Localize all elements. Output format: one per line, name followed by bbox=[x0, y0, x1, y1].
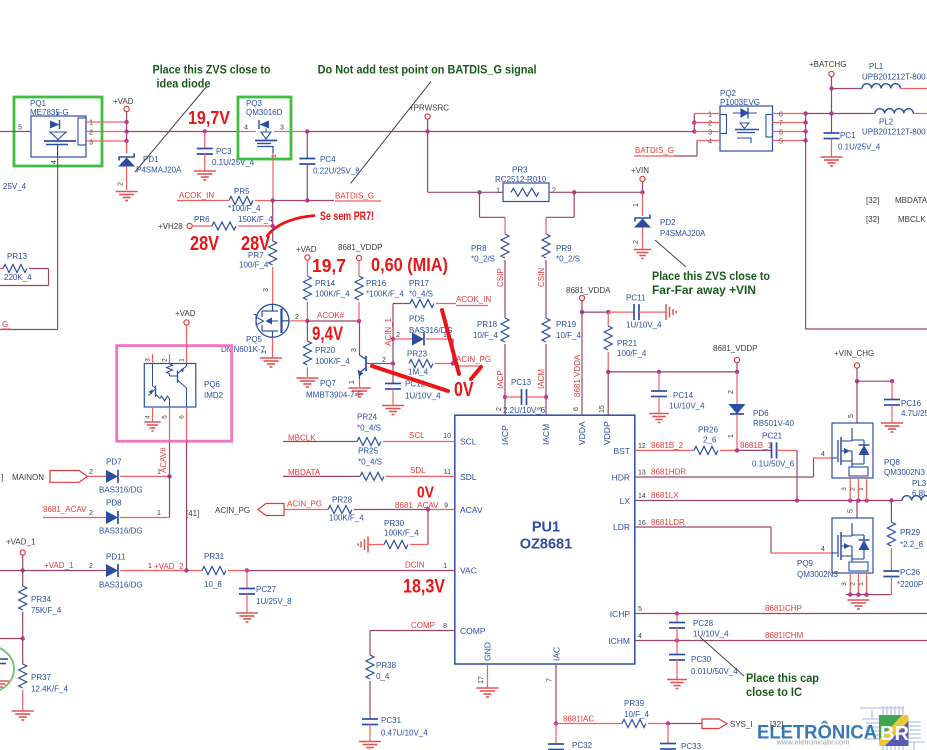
capacitor PC13 bbox=[503, 395, 507, 399]
PQ6 pin stubs bbox=[152, 354, 154, 364]
svg-text:SCL: SCL bbox=[409, 431, 425, 440]
svg-text:5: 5 bbox=[779, 139, 783, 146]
node SYS_I bbox=[666, 721, 670, 725]
svg-text:PR16: PR16 bbox=[366, 279, 387, 288]
svg-text:3: 3 bbox=[841, 582, 848, 586]
svg-text:HDR: HDR bbox=[612, 473, 630, 483]
wire PQ2 right bus down bbox=[805, 114, 807, 141]
svg-text:*0_4/S: *0_4/S bbox=[358, 458, 382, 467]
svg-text:5: 5 bbox=[848, 414, 855, 418]
wire +VIN_CHG to PQ8 drain bbox=[856, 381, 858, 423]
svg-text:1: 1 bbox=[708, 112, 712, 119]
svg-text:2: 2 bbox=[162, 358, 169, 362]
svg-text:www.eletronicabr.com: www.eletronicabr.com bbox=[776, 738, 850, 747]
svg-text:Far-Far away +VIN: Far-Far away +VIN bbox=[652, 283, 756, 297]
svg-text:ICHP: ICHP bbox=[610, 609, 631, 619]
svg-text:DCIN: DCIN bbox=[405, 561, 425, 570]
svg-text:0V: 0V bbox=[417, 485, 434, 502]
svg-text:PD5: PD5 bbox=[409, 315, 425, 324]
ground under PD1 bbox=[116, 191, 138, 193]
resistor PR30 to rake ground bbox=[427, 510, 429, 545]
node VDDP rail bbox=[606, 370, 610, 374]
ground under PC30 bbox=[667, 679, 687, 681]
svg-text:4: 4 bbox=[708, 139, 712, 146]
svg-text:3: 3 bbox=[537, 407, 544, 411]
svg-text:220K_4: 220K_4 bbox=[4, 273, 32, 282]
wire ACAV row bbox=[284, 509, 328, 511]
svg-text:0,60 (MIA): 0,60 (MIA) bbox=[371, 255, 448, 275]
wire main top rail bbox=[127, 131, 205, 133]
svg-text:6: 6 bbox=[179, 415, 186, 419]
svg-text:+BATCHG: +BATCHG bbox=[809, 60, 846, 69]
wire ACOK node down to PQ7 collector bbox=[359, 321, 361, 353]
leader line to BATDIS_G bbox=[351, 81, 431, 183]
green highlight box around PQ1 bbox=[14, 97, 102, 166]
watermark circuit traces bbox=[866, 722, 879, 724]
svg-text:PQ2: PQ2 bbox=[720, 89, 737, 98]
svg-text:1: 1 bbox=[443, 563, 447, 570]
PQ9 bottom pins to ground bus bbox=[849, 573, 851, 595]
svg-text:100/F_4: 100/F_4 bbox=[617, 349, 647, 358]
svg-text:PC4: PC4 bbox=[320, 155, 336, 164]
svg-text:0V: 0V bbox=[454, 379, 474, 401]
svg-text:PR39: PR39 bbox=[624, 699, 645, 708]
svg-text:*0_2/S: *0_2/S bbox=[556, 255, 580, 264]
wire +PRWSRC down to PR3 row bbox=[427, 132, 429, 193]
svg-text:8681_ACAV: 8681_ACAV bbox=[395, 501, 439, 510]
svg-text:1: 1 bbox=[496, 188, 500, 195]
wire ICHP row bbox=[635, 613, 927, 615]
resistor PR6 bbox=[192, 225, 212, 227]
svg-text:2: 2 bbox=[708, 121, 712, 128]
capacitor PC11 bbox=[633, 304, 635, 320]
svg-text:0_4: 0_4 bbox=[376, 672, 390, 681]
svg-text:8: 8 bbox=[779, 112, 783, 119]
wire main rail to PQ2 bbox=[428, 131, 695, 133]
capacitor PC26 bbox=[883, 570, 899, 572]
ground under PD2 bbox=[634, 249, 652, 251]
ground rake left of PR30 bbox=[367, 537, 369, 553]
svg-text:8681LDR: 8681LDR bbox=[651, 518, 685, 527]
svg-text:PR3: PR3 bbox=[512, 166, 528, 175]
svg-text:SDL: SDL bbox=[410, 466, 426, 475]
wire PQ6 pin6 to +VAD_2 bbox=[186, 441, 188, 570]
ground under PQ7 bbox=[349, 387, 371, 389]
svg-text:2: 2 bbox=[552, 188, 556, 195]
svg-text:PR23: PR23 bbox=[407, 350, 428, 359]
resistor PR7 bbox=[269, 241, 277, 265]
svg-text:PR26: PR26 bbox=[698, 426, 719, 435]
svg-text:5: 5 bbox=[638, 606, 642, 613]
svg-text:ACIN_PG: ACIN_PG bbox=[456, 355, 491, 364]
svg-text:*2200P: *2200P bbox=[897, 580, 923, 589]
PQ5 source to ground bbox=[272, 337, 274, 357]
svg-text:P4SMAJ20A: P4SMAJ20A bbox=[660, 229, 706, 238]
svg-text:PC11: PC11 bbox=[626, 294, 646, 303]
svg-text:PL1: PL1 bbox=[869, 62, 884, 71]
resistor PR38 bbox=[369, 631, 371, 656]
svg-text:PQ9: PQ9 bbox=[797, 559, 814, 568]
svg-text:1: 1 bbox=[261, 350, 268, 354]
svg-text:MMBT3904-7-F: MMBT3904-7-F bbox=[306, 391, 362, 400]
svg-text:MBDATA: MBDATA bbox=[288, 468, 321, 477]
svg-text:ACIN_PG: ACIN_PG bbox=[215, 506, 250, 515]
svg-text:7: 7 bbox=[547, 678, 554, 682]
wire CSIN vertical bbox=[545, 260, 547, 318]
svg-text:PC26: PC26 bbox=[900, 568, 921, 577]
svg-text:MBDATA: MBDATA bbox=[895, 196, 927, 205]
svg-text:*0_4/S: *0_4/S bbox=[357, 424, 381, 433]
svg-text:ACIN_1: ACIN_1 bbox=[384, 317, 393, 346]
svg-text:ACOK#: ACOK# bbox=[317, 311, 345, 320]
svg-text:PR37: PR37 bbox=[31, 673, 52, 682]
svg-text:18,3V: 18,3V bbox=[403, 577, 445, 598]
wire PQ1 pin1 to +VAD bus bbox=[86, 121, 127, 123]
wire VAC row from PC27 to PU1 bbox=[247, 570, 455, 572]
svg-text:1: 1 bbox=[157, 510, 161, 517]
svg-text:close to IC: close to IC bbox=[746, 685, 802, 699]
svg-text:2: 2 bbox=[496, 407, 503, 411]
svg-text:8681ICHP: 8681ICHP bbox=[765, 604, 802, 613]
svg-text:9: 9 bbox=[444, 503, 448, 510]
svg-text:]: ] bbox=[1, 473, 3, 482]
wire ICHM row bbox=[635, 640, 927, 642]
wire ACOK_IN row bbox=[177, 200, 229, 202]
svg-text:[32]: [32] bbox=[866, 196, 879, 205]
svg-text:3: 3 bbox=[841, 487, 848, 491]
svg-text:+VAD_2: +VAD_2 bbox=[154, 562, 184, 571]
node +VAD bus with junctions bbox=[126, 122, 128, 154]
svg-text:CSIP: CSIP bbox=[496, 268, 505, 287]
svg-text:8681_VDDP: 8681_VDDP bbox=[713, 344, 757, 353]
svg-text:BAS316/DG: BAS316/DG bbox=[99, 486, 143, 495]
svg-text:6: 6 bbox=[779, 130, 783, 137]
PQ8 bottom pins to LX bbox=[849, 478, 851, 501]
svg-text:1: 1 bbox=[271, 154, 278, 158]
svg-text:VAC: VAC bbox=[460, 566, 477, 576]
resistor PR20 bbox=[306, 321, 308, 341]
svg-text:QM3002N3: QM3002N3 bbox=[797, 570, 838, 579]
node ACIN_PG bbox=[451, 361, 455, 365]
svg-text:17: 17 bbox=[478, 676, 485, 684]
svg-text:100K/F_4: 100K/F_4 bbox=[315, 290, 350, 299]
node PR3 pin2 bbox=[549, 191, 643, 193]
svg-text:1U/10V_4: 1U/10V_4 bbox=[669, 402, 705, 411]
diode PD7 bbox=[88, 475, 107, 477]
svg-text:8681IAC: 8681IAC bbox=[563, 715, 594, 724]
green circled component (left edge) bbox=[0, 645, 14, 693]
svg-text:3: 3 bbox=[280, 125, 284, 132]
svg-text:100K/F_4: 100K/F_4 bbox=[329, 514, 364, 523]
ground under PC1 bbox=[821, 156, 843, 158]
PQ7 emitter to ground bbox=[359, 379, 361, 387]
svg-text:2: 2 bbox=[89, 510, 93, 517]
ground inside PQ6 box bbox=[144, 421, 161, 423]
svg-text:OZ8681: OZ8681 bbox=[520, 537, 572, 553]
wire PQ2 left bus bbox=[693, 114, 695, 132]
wire VDDA rail to PC11 bbox=[582, 311, 608, 313]
svg-text:2: 2 bbox=[382, 357, 386, 364]
svg-text:4.7U/25: 4.7U/25 bbox=[901, 409, 927, 418]
wire PQ1 pin2 to +VAD bus bbox=[86, 131, 127, 133]
leader line to PD1 bbox=[135, 86, 207, 172]
red annotation line ACOK to 0V bbox=[442, 310, 459, 374]
svg-text:10/F_4: 10/F_4 bbox=[624, 710, 649, 719]
svg-text:1U/25V_8: 1U/25V_8 bbox=[256, 597, 292, 606]
resistor PR14 bbox=[303, 276, 311, 300]
svg-text:150K/F_4: 150K/F_4 bbox=[238, 215, 273, 224]
wire PQ3 pin1 down to BATDIS node bbox=[272, 153, 274, 201]
svg-text:5: 5 bbox=[162, 415, 169, 419]
svg-text:PU1: PU1 bbox=[532, 520, 560, 536]
svg-text:G: G bbox=[2, 320, 8, 329]
wire COMP row bbox=[370, 630, 455, 632]
svg-text:+VAD: +VAD bbox=[113, 97, 134, 106]
ground under PC16 bbox=[881, 422, 903, 424]
svg-text:PQ6: PQ6 bbox=[204, 380, 221, 389]
svg-text:2: 2 bbox=[295, 314, 299, 321]
wire LX to PQ9 drain bbox=[856, 501, 858, 519]
svg-text:Place this ZVS close to: Place this ZVS close to bbox=[153, 63, 271, 77]
svg-text:PQ7: PQ7 bbox=[320, 379, 337, 388]
wire LDR row bbox=[635, 526, 771, 528]
wire +VAD row from left edge bbox=[0, 570, 106, 572]
svg-text:GND: GND bbox=[483, 642, 493, 661]
svg-text:BST: BST bbox=[613, 446, 630, 456]
svg-text:PR18: PR18 bbox=[477, 320, 498, 329]
diode PD6 bbox=[736, 372, 738, 404]
svg-text:8681HDR: 8681HDR bbox=[651, 468, 686, 477]
svg-text:100/F_4: 100/F_4 bbox=[239, 261, 269, 270]
red annotation line from PQ7 to 0V bbox=[372, 366, 448, 391]
transistor PQ7 bbox=[365, 356, 367, 371]
svg-text:COMP: COMP bbox=[411, 621, 435, 630]
svg-text:3: 3 bbox=[145, 358, 152, 362]
node PQ3 gate / BATDIS junction bbox=[271, 198, 275, 202]
inductor PL2 bbox=[806, 113, 875, 115]
wire to left edge at bottom of PQ1 branch bbox=[0, 329, 58, 331]
IC PU1 OZ8681 body bbox=[455, 415, 635, 664]
watermark logo chip BR bbox=[879, 715, 909, 746]
svg-text:3: 3 bbox=[351, 348, 358, 352]
inductor PL3 bbox=[902, 496, 927, 501]
ground under PC12 bbox=[382, 405, 404, 407]
svg-text:11: 11 bbox=[444, 469, 451, 476]
node PC27 bbox=[245, 568, 249, 572]
svg-text:*0_4/S: *0_4/S bbox=[409, 290, 433, 299]
svg-text:SYS_I: SYS_I bbox=[730, 720, 753, 729]
wire BATDIS vertical to PR7 bbox=[272, 201, 274, 242]
svg-text:1: 1 bbox=[728, 434, 735, 438]
wire left edge to PQ1 pin5 bbox=[0, 131, 31, 133]
svg-text:5: 5 bbox=[848, 509, 855, 513]
transistor PQ6 body bbox=[144, 364, 196, 408]
svg-text:8681B_1: 8681B_1 bbox=[740, 441, 773, 450]
svg-text:LX: LX bbox=[620, 496, 631, 506]
ground under PC27 bbox=[236, 612, 258, 614]
wire PR7 to PQ5 gate bbox=[272, 267, 274, 304]
capacitor PC4 bbox=[306, 132, 308, 159]
svg-text:Do Not add test point on BATDI: Do Not add test point on BATDIS_G signal bbox=[318, 62, 537, 76]
wire +VIN_CHG rail bbox=[857, 380, 892, 382]
ground under PC31 bbox=[359, 741, 381, 743]
wire IACP vertical to PU1 bbox=[504, 344, 506, 415]
svg-text:9,4V: 9,4V bbox=[312, 324, 343, 345]
svg-text:2: 2 bbox=[89, 563, 93, 570]
resistor PR34 bbox=[22, 571, 24, 587]
svg-text:COMP: COMP bbox=[460, 626, 486, 636]
wire CSIP vertical bbox=[504, 260, 506, 318]
svg-text:[32]: [32] bbox=[770, 720, 783, 729]
svg-text:8681B_2: 8681B_2 bbox=[651, 441, 684, 450]
svg-text:1U/10V_4: 1U/10V_4 bbox=[405, 392, 441, 401]
svg-text:UPB201212T-800: UPB201212T-800 bbox=[862, 73, 926, 82]
wire PQ1 pin4 down bbox=[57, 157, 59, 330]
svg-text:PR17: PR17 bbox=[409, 279, 430, 288]
leader line PC28 to green note bbox=[700, 637, 744, 676]
svg-text:2_6: 2_6 bbox=[703, 436, 717, 445]
svg-text:5: 5 bbox=[18, 125, 22, 132]
svg-text:PQ1: PQ1 bbox=[30, 99, 47, 108]
svg-text:1: 1 bbox=[349, 380, 356, 384]
svg-text:PQ3: PQ3 bbox=[246, 99, 263, 108]
svg-text:1: 1 bbox=[89, 120, 93, 127]
wire IACM vertical to PU1 bbox=[545, 344, 547, 415]
capacitor PC21 bbox=[737, 449, 772, 451]
svg-text:QM3016D: QM3016D bbox=[246, 108, 283, 117]
svg-text:VDDA: VDDA bbox=[577, 421, 587, 445]
svg-text:Place this ZVS close to: Place this ZVS close to bbox=[652, 269, 770, 283]
svg-text:2: 2 bbox=[633, 240, 640, 244]
svg-text:[32]: [32] bbox=[866, 215, 879, 224]
node 8681B_1 bbox=[735, 448, 739, 452]
svg-text:PR14: PR14 bbox=[315, 279, 336, 288]
svg-text:PC14: PC14 bbox=[673, 391, 694, 400]
svg-text:25V_4: 25V_4 bbox=[3, 182, 27, 191]
wire PD5 to ACIN_PG node bbox=[452, 339, 454, 364]
resistor PR9 bbox=[542, 234, 550, 258]
svg-text:7: 7 bbox=[779, 121, 783, 128]
wire PQ2 pin4 BATDIS_G bbox=[697, 140, 720, 142]
svg-text:PC33: PC33 bbox=[681, 742, 702, 750]
svg-text:PC21: PC21 bbox=[762, 432, 783, 441]
svg-text:2: 2 bbox=[89, 469, 93, 476]
svg-text:IACP: IACP bbox=[500, 425, 510, 445]
svg-text:BATDIS_G: BATDIS_G bbox=[335, 192, 374, 201]
svg-text:0.1U/25V_4: 0.1U/25V_4 bbox=[838, 143, 881, 152]
diode PD5 bbox=[391, 337, 395, 341]
wire IAC row bbox=[556, 723, 622, 725]
red annotation tick near ACIN_PG bbox=[471, 367, 481, 379]
svg-text:IMD2: IMD2 bbox=[204, 391, 224, 400]
svg-text:ACOK_IN: ACOK_IN bbox=[456, 295, 491, 304]
svg-text:8681_VDDP: 8681_VDDP bbox=[338, 243, 382, 252]
svg-text:13: 13 bbox=[638, 470, 646, 477]
wire PQ2 right stubs bbox=[773, 113, 806, 115]
svg-text:Se sem PR7!: Se sem PR7! bbox=[320, 209, 374, 223]
svg-text:8681_VDDA: 8681_VDDA bbox=[566, 286, 611, 295]
svg-text:MAINON: MAINON bbox=[12, 473, 44, 482]
transistor PQ8 bbox=[832, 423, 873, 478]
svg-text:1: 1 bbox=[858, 487, 865, 491]
transistor PQ9 bbox=[832, 518, 873, 573]
wire CSIN drop bbox=[573, 192, 575, 217]
svg-text:ICHM: ICHM bbox=[608, 636, 630, 646]
wire CSIP drop bbox=[479, 192, 481, 217]
svg-text:PR25: PR25 bbox=[358, 447, 379, 456]
svg-text:+VAD: +VAD bbox=[296, 245, 317, 254]
capacitor PC3 bbox=[203, 129, 207, 133]
svg-text:PC13: PC13 bbox=[511, 378, 532, 387]
resistor PR8 bbox=[501, 234, 509, 258]
svg-text:8681LX: 8681LX bbox=[651, 491, 679, 500]
transistor PQ1 body bbox=[31, 116, 86, 157]
svg-text:2: 2 bbox=[118, 182, 125, 186]
svg-text:PD1: PD1 bbox=[143, 155, 159, 164]
svg-text:2: 2 bbox=[728, 390, 735, 394]
svg-text:4: 4 bbox=[145, 415, 152, 419]
svg-text:ACIN_PG: ACIN_PG bbox=[287, 500, 322, 509]
transistor PQ5 bbox=[256, 304, 289, 337]
leader line PD2 to green note bbox=[655, 240, 686, 267]
svg-text:*100K/F_4: *100K/F_4 bbox=[366, 290, 404, 299]
svg-text:PL3: PL3 bbox=[912, 479, 927, 488]
resistor PR17 bbox=[393, 303, 410, 305]
svg-text:SDL: SDL bbox=[460, 472, 477, 482]
node ACOK# bbox=[305, 319, 309, 323]
node ACAV junction bbox=[167, 474, 171, 478]
svg-text:19,7: 19,7 bbox=[312, 255, 346, 276]
node pin6 PQ6 to +VAD_2 bbox=[184, 568, 188, 572]
diode PD2 bbox=[642, 192, 644, 216]
svg-text:10/F_4: 10/F_4 bbox=[556, 331, 581, 340]
ground under PQ9 bus bbox=[847, 599, 869, 601]
connector arrow SYS_I bbox=[702, 719, 727, 729]
wire ACAV vertical from PQ6 bbox=[169, 441, 171, 517]
svg-text:0.47U/10V_4: 0.47U/10V_4 bbox=[381, 729, 428, 738]
svg-text:VDDP: VDDP bbox=[602, 421, 612, 445]
svg-text:+VAD_1: +VAD_1 bbox=[44, 561, 74, 570]
svg-text:PC3: PC3 bbox=[216, 147, 232, 156]
svg-text:2: 2 bbox=[850, 582, 857, 586]
svg-text:0.1U/50V_6: 0.1U/50V_6 bbox=[752, 460, 795, 469]
capacitor PC31 bbox=[362, 718, 378, 720]
wire PR17 branch vertical bbox=[392, 304, 394, 384]
svg-text:PR38: PR38 bbox=[376, 661, 397, 670]
red annotation curve to PR7 bbox=[267, 216, 316, 238]
svg-text:PR31: PR31 bbox=[204, 552, 225, 561]
svg-text:PC1: PC1 bbox=[840, 131, 856, 140]
svg-text:PR5: PR5 bbox=[234, 187, 250, 196]
ground rake right of PC11 bbox=[665, 304, 667, 320]
svg-text:+PRWSRC: +PRWSRC bbox=[409, 104, 449, 113]
wire VDDP vertical to PU1 bbox=[607, 372, 609, 415]
resistor PR23 bbox=[391, 361, 395, 365]
svg-text:6: 6 bbox=[573, 407, 580, 411]
svg-text:2: 2 bbox=[89, 130, 93, 137]
svg-text:12: 12 bbox=[638, 443, 646, 450]
transistor PQ2 body bbox=[720, 106, 773, 151]
svg-text:MBCLK: MBCLK bbox=[898, 215, 926, 224]
svg-text:1U/10V_4: 1U/10V_4 bbox=[693, 630, 729, 639]
svg-text:PR21: PR21 bbox=[617, 339, 638, 348]
svg-text:+VIN_CHG: +VIN_CHG bbox=[834, 349, 874, 358]
svg-text:+VH28: +VH28 bbox=[158, 222, 183, 231]
svg-text:PR24: PR24 bbox=[357, 413, 378, 422]
svg-text:*100/F_4: *100/F_4 bbox=[228, 204, 261, 213]
svg-text:BATDIS_G: BATDIS_G bbox=[635, 146, 674, 155]
svg-text:PR13: PR13 bbox=[7, 252, 28, 261]
